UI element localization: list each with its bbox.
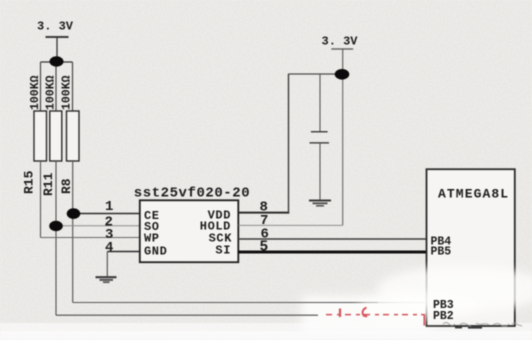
svg-text:SI: SI: [215, 244, 231, 258]
svg-text:100KΩ: 100KΩ: [45, 75, 58, 110]
svg-text:ATMEGA8L: ATMEGA8L: [438, 187, 509, 202]
svg-text:100KΩ: 100KΩ: [61, 75, 74, 110]
svg-text:PB2: PB2: [433, 310, 454, 323]
svg-text:100KΩ: 100KΩ: [29, 75, 42, 110]
svg-text:3. 3V: 3. 3V: [322, 35, 359, 49]
svg-text:4: 4: [105, 240, 113, 256]
svg-text:GND: GND: [144, 245, 167, 259]
svg-text:R11: R11: [41, 172, 56, 196]
svg-text:R8: R8: [59, 178, 74, 194]
svg-text:sst25vf020-20: sst25vf020-20: [134, 186, 250, 202]
svg-text:3. 3V: 3. 3V: [37, 20, 74, 34]
svg-text:R15: R15: [22, 170, 37, 194]
svg-text:1: 1: [105, 199, 113, 215]
svg-text:PB5: PB5: [431, 246, 452, 259]
